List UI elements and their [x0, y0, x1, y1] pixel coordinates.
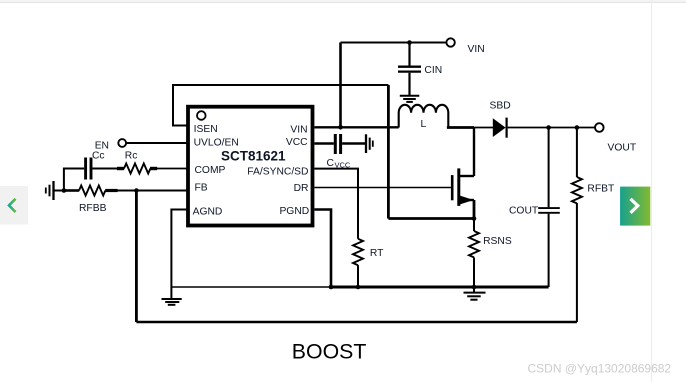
- label pin UVLO/EN: [194, 137, 239, 148]
- wire top VIN rail: [341, 42, 447, 44]
- wire VIN pin to inductor: [315, 126, 399, 128]
- node junction PGND rail: [329, 285, 334, 290]
- svg-text:SCT81621: SCT81621: [221, 148, 286, 163]
- label RFBB: [79, 203, 107, 214]
- wire RFBB to FB pin: [117, 190, 186, 192]
- label EN: [95, 140, 109, 151]
- label part number SCT81621: [221, 148, 286, 163]
- svg-text:RT: RT: [370, 248, 384, 259]
- label VIN: [468, 44, 485, 55]
- label pin VCC: [286, 137, 308, 148]
- svg-text:VIN: VIN: [468, 44, 485, 55]
- wire rail drop to VIN pin: [339, 43, 342, 128]
- inductor L: [399, 105, 449, 128]
- capacitor CIN: [398, 43, 421, 96]
- label L: [421, 119, 427, 130]
- label title BOOST: [292, 340, 367, 364]
- svg-text:RSNS: RSNS: [483, 236, 512, 247]
- label RSNS: [483, 236, 512, 247]
- ground RSNS: [464, 293, 486, 300]
- svg-text:VOUT: VOUT: [608, 142, 637, 153]
- wire power ground rail: [331, 286, 549, 289]
- svg-text:L: L: [421, 119, 427, 130]
- node junction VIN wire / rail drop: [338, 125, 343, 130]
- resistor RT: [353, 239, 363, 287]
- terminal VIN: [446, 38, 454, 46]
- svg-text:VCC: VCC: [286, 137, 308, 148]
- wire COMP branch vertical: [64, 169, 84, 191]
- wire SW to diode anode: [474, 127, 493, 129]
- svg-text:FB: FB: [195, 182, 208, 193]
- node junction RFBT top: [575, 125, 580, 130]
- ground below CIN: [400, 96, 420, 102]
- svg-text:DR: DR: [294, 183, 309, 194]
- svg-text:ISEN: ISEN: [194, 124, 218, 135]
- label pin ISEN: [194, 124, 218, 135]
- wire ISEN vertical sense line: [387, 85, 390, 219]
- resistor RFBT: [572, 128, 582, 204]
- page top bar: [0, 0, 686, 3]
- label pin FB: [195, 182, 208, 193]
- svg-text:FA/SYNC/SD: FA/SYNC/SD: [247, 167, 308, 178]
- node junction RSNS rail: [472, 285, 477, 290]
- label pin VIN: [290, 125, 307, 136]
- svg-text:C: C: [327, 158, 335, 169]
- ground right of Cvcc: [366, 134, 373, 153]
- node junction FB: [134, 188, 139, 193]
- svg-text:UVLO/EN: UVLO/EN: [194, 137, 239, 148]
- resistor RFBB: [64, 186, 118, 196]
- terminal EN: [118, 139, 126, 147]
- label Cvcc: [327, 158, 351, 170]
- svg-text:VIN: VIN: [290, 125, 307, 136]
- next page button: [620, 187, 650, 226]
- wire Cc to Rc: [92, 168, 117, 170]
- wire Rc to COMP pin: [157, 168, 187, 170]
- wire COUT bottom: [548, 214, 550, 287]
- svg-text:BOOST: BOOST: [292, 340, 367, 364]
- label pin AGND: [193, 207, 223, 218]
- wire FA/SYNC/SD to RT: [315, 169, 359, 239]
- node junction Cc/RFBB/ground: [62, 188, 67, 193]
- label CIN: [424, 65, 442, 76]
- op-amp U1 SCT81621 IC body: [188, 107, 313, 226]
- ground left of RFBB: [46, 181, 54, 200]
- wire AGND: [171, 210, 186, 299]
- label VOUT: [608, 142, 637, 153]
- svg-text:COMP: COMP: [195, 165, 226, 176]
- label pin COMP: [195, 165, 226, 176]
- wire DR to gate: [315, 187, 451, 189]
- label Rc: [125, 151, 138, 162]
- capacitor Cc: [86, 158, 91, 180]
- node junction source/RSNS: [472, 216, 477, 221]
- svg-text:Rc: Rc: [125, 151, 138, 162]
- node junction RT rail: [356, 285, 361, 290]
- ground AGND: [162, 299, 182, 305]
- resistor RSNS: [469, 219, 479, 293]
- wire ground to node: [55, 190, 64, 192]
- watermark CSDN: [528, 362, 672, 376]
- resistor Rc: [117, 164, 157, 174]
- wire ISEN sense loop: [173, 85, 388, 126]
- label Cc: [92, 151, 105, 162]
- wire analog ground rail: [171, 286, 331, 288]
- wire VCC to Cvcc: [315, 142, 334, 144]
- label RT: [370, 248, 384, 259]
- svg-text:CSDN @Yyq13020869682: CSDN @Yyq13020869682: [528, 362, 672, 376]
- capacitor COUT: [538, 128, 560, 213]
- label pin PGND: [279, 206, 309, 217]
- svg-text:SBD: SBD: [490, 101, 511, 112]
- svg-text:RFBT: RFBT: [587, 183, 615, 194]
- wire Cvcc to ground: [342, 142, 365, 144]
- pin 1 indicator circle: [197, 111, 206, 120]
- prev page button: [0, 186, 28, 225]
- wire diode to VOUT: [508, 127, 595, 129]
- wire feedback bottom rail: [136, 321, 577, 324]
- svg-text:VCC: VCC: [335, 161, 351, 170]
- label pin FA/SYNC/SD: [247, 167, 308, 178]
- node junction top rail / CIN: [407, 40, 412, 45]
- node junction COUT top: [546, 125, 551, 130]
- svg-text:AGND: AGND: [193, 207, 223, 218]
- wire EN to UVLO/EN: [126, 142, 186, 144]
- wire PGND: [315, 210, 332, 288]
- capacitor Cvcc: [335, 134, 340, 154]
- wire source node horizontal: [388, 217, 474, 220]
- svg-text:PGND: PGND: [279, 206, 309, 217]
- wire FB drop: [135, 191, 138, 323]
- svg-text:COUT: COUT: [509, 206, 539, 217]
- label RFBT: [587, 183, 615, 194]
- svg-text:Cc: Cc: [92, 151, 105, 162]
- wire switch node thick segment: [447, 126, 474, 129]
- wire RFBT bottom drop: [576, 203, 578, 322]
- right column divider: [651, 0, 652, 382]
- label pin DR: [294, 183, 309, 194]
- label SBD: [490, 101, 511, 112]
- svg-text:CIN: CIN: [424, 65, 442, 76]
- transistor Q1 NMOS: [452, 128, 474, 219]
- label COUT: [509, 206, 539, 217]
- terminal VOUT: [595, 123, 604, 132]
- svg-text:RFBB: RFBB: [79, 203, 107, 214]
- diode SBD: [493, 118, 507, 138]
